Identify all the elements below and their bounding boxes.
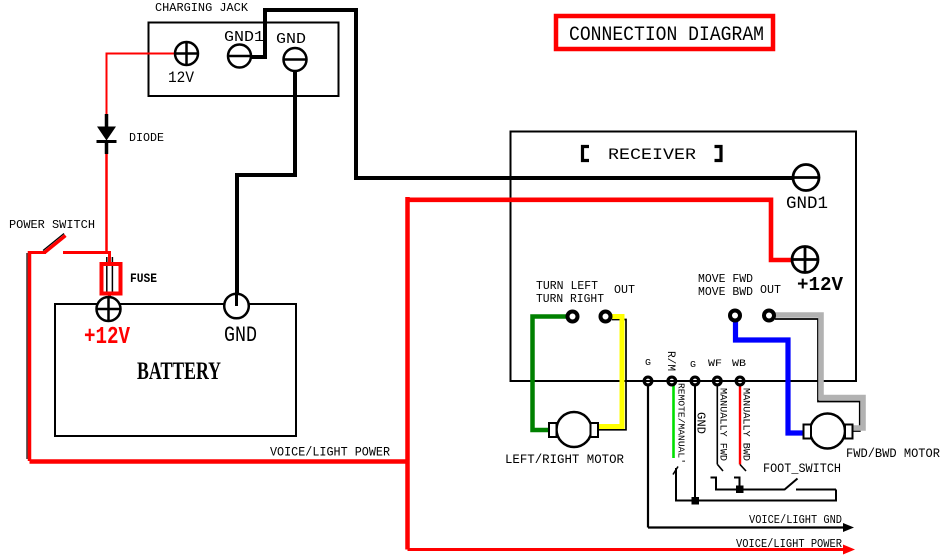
svg-text:G: G bbox=[645, 358, 651, 368]
svg-text:+12V: +12V bbox=[84, 324, 130, 351]
svg-text:LEFT/RIGHT MOTOR: LEFT/RIGHT MOTOR bbox=[505, 453, 624, 467]
svg-text:GND: GND bbox=[224, 323, 257, 348]
svg-text:VOICE/LIGHT POWER: VOICE/LIGHT POWER bbox=[270, 445, 390, 460]
svg-text:GND1: GND1 bbox=[224, 29, 264, 46]
svg-text:GND1: GND1 bbox=[786, 194, 828, 214]
svg-text:FWD/BWD MOTOR: FWD/BWD MOTOR bbox=[846, 447, 940, 461]
svg-text:WF: WF bbox=[708, 359, 722, 370]
svg-text:VOICE/LIGHT GND: VOICE/LIGHT GND bbox=[749, 513, 842, 527]
svg-text:GND: GND bbox=[276, 31, 306, 48]
svg-text:REMOTE/MANUAL': REMOTE/MANUAL' bbox=[676, 383, 687, 464]
svg-text:TURN LEFT: TURN LEFT bbox=[536, 279, 598, 293]
svg-text:OUT: OUT bbox=[614, 283, 635, 297]
svg-text:POWER SWITCH: POWER SWITCH bbox=[9, 218, 95, 232]
svg-text:MANUALLY FWD: MANUALLY FWD bbox=[717, 388, 728, 461]
svg-text:BATTERY: BATTERY bbox=[137, 358, 221, 385]
svg-text:TURN RIGHT: TURN RIGHT bbox=[536, 292, 604, 306]
svg-text:12V: 12V bbox=[168, 69, 194, 87]
svg-text:FOOT_SWITCH: FOOT_SWITCH bbox=[763, 462, 841, 476]
svg-text:G: G bbox=[690, 360, 696, 370]
svg-text:DIODE: DIODE bbox=[129, 131, 164, 145]
svg-text:OUT: OUT bbox=[760, 283, 781, 297]
svg-text:MANUALLY BWD: MANUALLY BWD bbox=[740, 388, 751, 461]
svg-text:MOVE BWD: MOVE BWD bbox=[698, 285, 753, 299]
svg-text:+12V: +12V bbox=[797, 274, 844, 296]
svg-text:FUSE: FUSE bbox=[130, 271, 157, 286]
svg-text:RECEIVER: RECEIVER bbox=[608, 146, 696, 164]
svg-text:CHARGING JACK: CHARGING JACK bbox=[155, 1, 249, 15]
svg-text:MOVE FWD: MOVE FWD bbox=[698, 272, 753, 286]
svg-text:GND: GND bbox=[694, 412, 708, 434]
svg-text:WB: WB bbox=[732, 359, 746, 370]
svg-text:CONNECTION DIAGRAM: CONNECTION DIAGRAM bbox=[569, 24, 764, 47]
svg-text:R/M: R/M bbox=[664, 351, 676, 371]
svg-text:VOICE/LIGHT POWER: VOICE/LIGHT POWER bbox=[736, 537, 842, 551]
